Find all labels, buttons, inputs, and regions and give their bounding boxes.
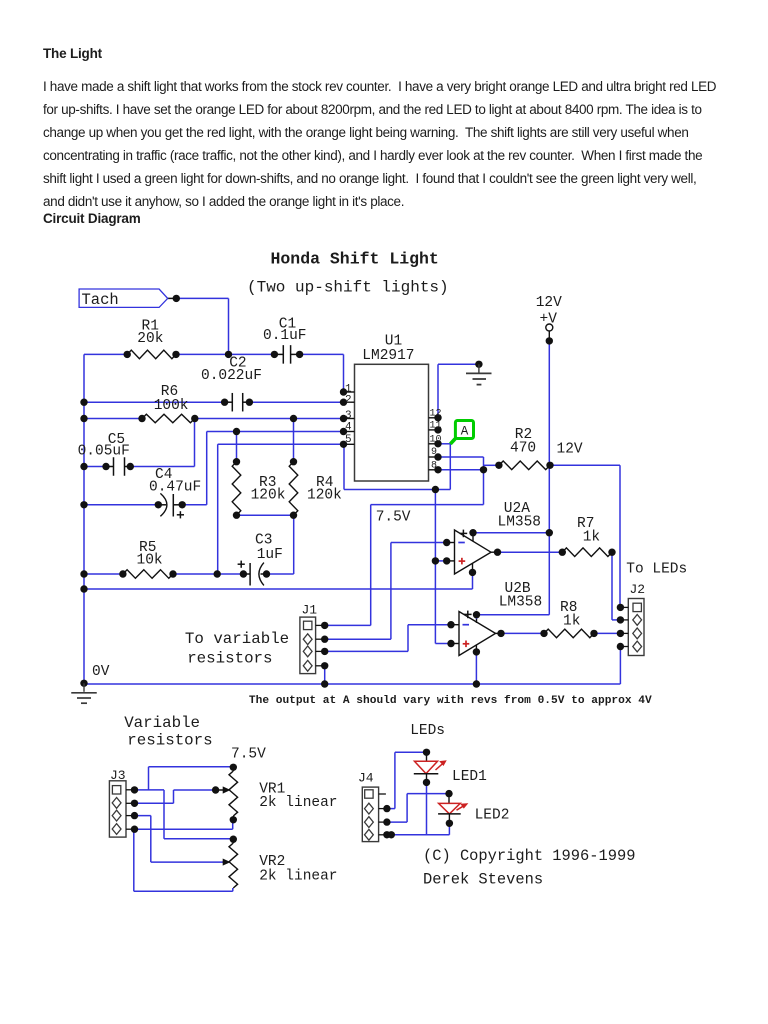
- svg-text:(C) Copyright 1996-1999: (C) Copyright 1996-1999: [423, 847, 635, 865]
- svg-text:J3: J3: [110, 768, 126, 783]
- svg-text:0.1uF: 0.1uF: [263, 328, 307, 344]
- svg-text:Honda Shift Light: Honda Shift Light: [271, 250, 439, 269]
- svg-text:5: 5: [345, 434, 352, 446]
- svg-text:Derek Stevens: Derek Stevens: [423, 871, 543, 889]
- svg-text:+V: +V: [540, 312, 558, 328]
- svg-text:LED2: LED2: [475, 808, 510, 824]
- svg-text:1uF: 1uF: [257, 547, 283, 563]
- svg-text:LM2917: LM2917: [362, 348, 414, 364]
- svg-text:Variable: Variable: [124, 714, 200, 732]
- svg-text:9: 9: [431, 447, 437, 458]
- svg-text:12V: 12V: [536, 295, 562, 311]
- svg-text:LEDs: LEDs: [410, 723, 445, 739]
- svg-text:A: A: [461, 425, 469, 439]
- svg-text:J2: J2: [630, 582, 646, 597]
- svg-text:resistors: resistors: [187, 650, 272, 668]
- svg-text:0.47uF: 0.47uF: [149, 480, 201, 496]
- svg-text:2k linear: 2k linear: [259, 795, 337, 811]
- svg-text:0.022uF: 0.022uF: [201, 368, 262, 384]
- svg-text:100k: 100k: [154, 398, 189, 414]
- svg-text:3: 3: [345, 410, 352, 422]
- svg-text:LM358: LM358: [499, 595, 543, 611]
- svg-text:8: 8: [431, 460, 437, 471]
- svg-text:To LEDs: To LEDs: [626, 562, 687, 578]
- svg-text:To variable: To variable: [185, 630, 289, 648]
- svg-text:J1: J1: [302, 603, 318, 618]
- svg-text:20k: 20k: [137, 331, 163, 347]
- svg-text:120k: 120k: [251, 488, 286, 504]
- svg-text:2k linear: 2k linear: [259, 869, 337, 885]
- svg-text:0V: 0V: [92, 664, 110, 680]
- svg-text:J4: J4: [358, 771, 374, 786]
- svg-text:12V: 12V: [557, 442, 583, 458]
- svg-text:2: 2: [345, 395, 352, 407]
- svg-text:LED1: LED1: [452, 769, 487, 785]
- svg-text:(Two up-shift lights): (Two up-shift lights): [247, 279, 449, 297]
- svg-text:1k: 1k: [563, 614, 580, 630]
- svg-text:7.5V: 7.5V: [376, 510, 411, 526]
- svg-text:resistors: resistors: [127, 732, 212, 750]
- svg-text:4: 4: [345, 421, 352, 433]
- svg-text:Tach: Tach: [82, 291, 119, 309]
- svg-text:120k: 120k: [307, 488, 342, 504]
- svg-text:470: 470: [510, 441, 536, 457]
- svg-text:LM358: LM358: [498, 515, 542, 531]
- svg-text:10: 10: [430, 435, 442, 446]
- svg-text:The output at A should vary wi: The output at A should vary with revs fr…: [249, 695, 652, 707]
- svg-text:11: 11: [430, 420, 442, 431]
- svg-text:7.5V: 7.5V: [231, 747, 266, 763]
- svg-text:0.05uF: 0.05uF: [78, 444, 130, 460]
- svg-text:12: 12: [430, 408, 442, 419]
- svg-text:1k: 1k: [583, 530, 600, 546]
- svg-text:1: 1: [345, 383, 352, 395]
- svg-text:10k: 10k: [137, 553, 163, 569]
